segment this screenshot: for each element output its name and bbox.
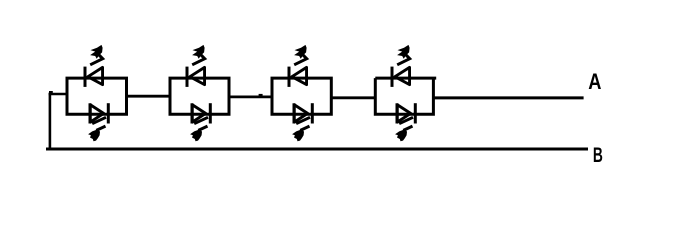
LED D8 emission arrow — [395, 117, 413, 141]
LED D6 emission arrow — [292, 117, 310, 141]
LED D1 (top of pair 1, cathode left) — [85, 67, 103, 87]
LED D5 (top of pair 3, cathode left) — [289, 67, 307, 87]
wire: corner nub at left junction — [49, 91, 53, 93]
svg-text:A: A — [588, 69, 601, 94]
LED D6 (bottom of pair 3, cathode right) — [294, 103, 312, 123]
LED D3 emission arrow — [192, 45, 205, 65]
LED D4 (bottom of pair 2, cathode right) — [192, 103, 210, 123]
LED D2 emission arrow — [88, 117, 106, 141]
LED pair 1 frame wires — [67, 78, 127, 114]
wire: left vertical drop to B rail — [49, 93, 52, 150]
svg-text:B: B — [593, 142, 603, 167]
LED D8 (bottom of pair 4, cathode right) — [397, 103, 415, 123]
wire: link between pair 2 and pair 3 — [229, 96, 272, 99]
LED D7 emission arrow — [397, 45, 410, 65]
wire: left stub from drop wire to LED pair 1 — [49, 93, 69, 96]
LED D5 emission arrow — [294, 45, 307, 65]
wire: link between pair 1 and pair 2 — [127, 95, 171, 98]
LED pair 4 frame wires — [375, 78, 436, 114]
wire: output lead to terminal A — [433, 96, 584, 99]
LED D1 emission arrow — [90, 45, 103, 65]
LED pair 2 frame wires — [170, 78, 229, 114]
LED D4 emission arrow — [190, 117, 208, 141]
LED D2 (bottom of pair 1, cathode right) — [90, 103, 108, 123]
wire: nub on link 2-3 — [259, 94, 263, 96]
LED D3 (top of pair 2, cathode left) — [187, 67, 205, 87]
LED D7 (top of pair 4, cathode left) — [392, 67, 410, 87]
wire: bottom B rail — [46, 148, 588, 151]
LED pair 3 frame wires — [272, 78, 331, 114]
wire: link between pair 3 and pair 4 — [331, 96, 375, 99]
